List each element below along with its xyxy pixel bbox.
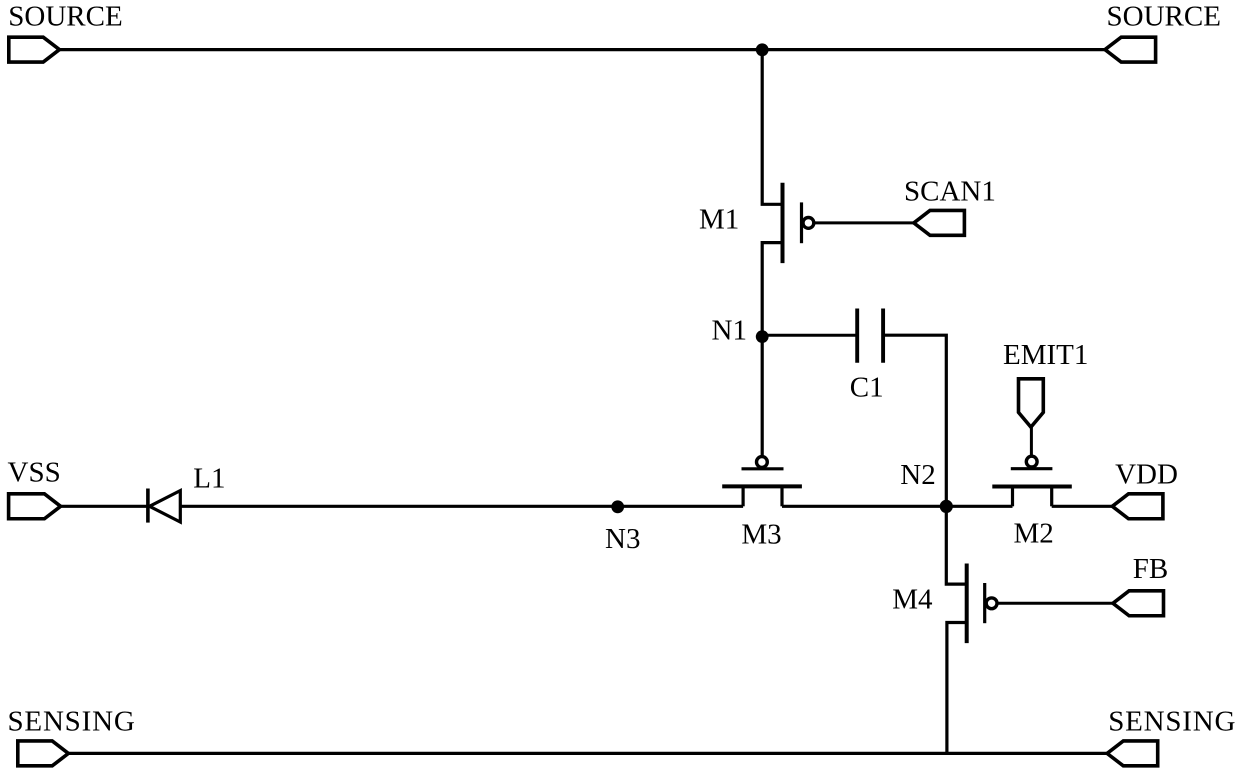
wire: M1 source down to N1 <box>762 243 781 337</box>
svg-text:VSS: VSS <box>8 457 61 489</box>
svg-text:N1: N1 <box>712 315 747 347</box>
capacitor C1 <box>857 309 883 363</box>
terminal FB <box>1113 591 1164 616</box>
wire: M4 gate to FB <box>997 602 1114 605</box>
wire: M1 gate to SCAN1 <box>814 221 915 224</box>
junction dot: top rail / M1 drain <box>756 43 769 56</box>
wire: bottom SENSING rail <box>67 752 1108 755</box>
svg-text:C1: C1 <box>850 371 884 403</box>
terminal VDD <box>1112 494 1163 519</box>
node N2 junction dot <box>940 500 953 513</box>
wire: M4 source down to sensing rail <box>947 623 966 754</box>
terminal SCAN1 <box>914 210 965 235</box>
svg-text:SENSING: SENSING <box>1108 706 1236 738</box>
transistor M4 <box>967 564 997 644</box>
node N1 junction dot <box>756 330 769 343</box>
wire: M1 drain from top rail <box>762 50 781 205</box>
wire: C1 right plate to N2 (corner down) <box>883 335 946 507</box>
wire: N1 to C1 left plate <box>762 334 857 337</box>
wire: EMIT1 to M2 gate bubble <box>1030 426 1033 456</box>
wire: M3 drain to M2 source (through N2) <box>782 505 1013 508</box>
terminal VSS <box>9 494 61 519</box>
wire: VSS to diode L1 cathode <box>59 505 148 508</box>
transistor M3 <box>722 457 802 507</box>
terminal EMIT1 <box>1019 379 1044 427</box>
svg-text:N3: N3 <box>605 523 640 555</box>
wire: N1 down to M3 gate bubble <box>761 337 764 457</box>
svg-text:SOURCE: SOURCE <box>1107 1 1221 33</box>
wire: L1 to M3 source (through N3) <box>180 505 743 508</box>
terminal SOURCE (top right) <box>1105 37 1156 62</box>
svg-text:N2: N2 <box>900 459 935 491</box>
terminal SOURCE (top left) <box>9 37 60 62</box>
wire: M2 drain to VDD <box>1052 505 1114 508</box>
transistor M2 <box>992 456 1072 506</box>
svg-text:M4: M4 <box>892 584 933 616</box>
wire: N2 down to M4 drain <box>946 506 965 584</box>
svg-text:SCAN1: SCAN1 <box>904 175 996 207</box>
svg-text:FB: FB <box>1133 553 1168 585</box>
transistor M1 <box>783 183 814 263</box>
svg-text:VDD: VDD <box>1115 459 1178 491</box>
wire: top SOURCE rail <box>58 48 1106 51</box>
svg-text:M3: M3 <box>741 518 781 550</box>
svg-text:M2: M2 <box>1014 518 1054 550</box>
svg-text:L1: L1 <box>193 462 225 494</box>
diode L1 <box>148 489 180 523</box>
terminal SENSING (bottom right) <box>1107 741 1158 766</box>
terminal SENSING (bottom left) <box>18 741 69 766</box>
svg-text:M1: M1 <box>699 203 739 235</box>
node N3 junction dot <box>611 500 624 513</box>
svg-text:SENSING: SENSING <box>8 706 136 738</box>
svg-text:EMIT1: EMIT1 <box>1003 339 1088 371</box>
svg-text:SOURCE: SOURCE <box>8 1 122 33</box>
